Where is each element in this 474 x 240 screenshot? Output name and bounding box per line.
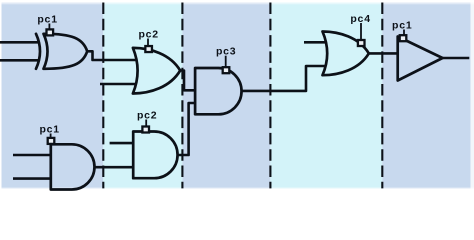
wire U5 output to U6 input B (net n5) [242, 66, 327, 91]
stage band 2 (cyan) [103, 3, 182, 189]
wire U1 input B [0, 59, 39, 62]
svg-text:pc4: pc4 [350, 13, 371, 25]
and gate U4 (pc2) body [133, 132, 177, 179]
wire U2 output to U5 input A (net n3) [180, 71, 195, 91]
probe marker on U2 [145, 39, 152, 53]
wire U6 input A stub [304, 41, 326, 44]
soft bottom edge of plot area [2, 187, 474, 188]
svg-text:pc1: pc1 [37, 13, 58, 25]
wire U4 output to U5 input B (net n4) [178, 103, 196, 155]
wire U1 input A [0, 41, 39, 44]
probe marker on U7 [400, 30, 407, 42]
stage band 3 (blue) [182, 3, 270, 189]
stage boundary dashed line 1 [102, 3, 104, 189]
wire U3 output to U4 input B (net n2) [95, 166, 134, 169]
buffer U7 (pc1) body [398, 37, 443, 81]
xor gate U1 (pc1) body [44, 34, 88, 69]
wire U6 output to U7 input (net n6) [369, 52, 398, 55]
right margin strip [471, 3, 474, 189]
and gate U5 (pc3) body [195, 68, 241, 114]
wire U1 output to U2 input A (net n1) [87, 51, 136, 60]
probe marker on U6 [358, 23, 365, 46]
svg-text:pc2: pc2 [137, 109, 158, 121]
svg-text:pc2: pc2 [138, 28, 159, 40]
probe marker on U3 [48, 134, 55, 144]
wire U2 input B stub [100, 83, 136, 86]
and gate U3 (pc1) body [51, 144, 95, 189]
wire U7 output [443, 57, 470, 60]
stage band 5 (blue) [382, 3, 470, 189]
stage band 4 (cyan) [270, 3, 382, 189]
svg-text:pc1: pc1 [392, 20, 413, 32]
wire U3 input A [13, 154, 51, 157]
or gate U6 (pc4) body [323, 32, 369, 76]
stage band 1 (blue) [2, 3, 104, 189]
probe marker on U1 [47, 24, 54, 36]
svg-text:pc1: pc1 [39, 124, 60, 136]
or gate U2 (pc2) body [133, 48, 180, 94]
probe marker on U4 [142, 120, 149, 133]
svg-text:pc3: pc3 [216, 46, 237, 58]
stage boundary dashed line 3 [269, 3, 271, 189]
stage boundary dashed line 2 [181, 3, 183, 189]
wire U4 input A stub [110, 142, 134, 145]
xor gate U1 (pc1) input arc [36, 34, 40, 69]
stage boundary dashed line 4 [381, 3, 383, 189]
wire U3 input B [13, 177, 51, 180]
probe marker on U5 [223, 56, 230, 73]
soft top edge of plot area [2, 3, 474, 5]
